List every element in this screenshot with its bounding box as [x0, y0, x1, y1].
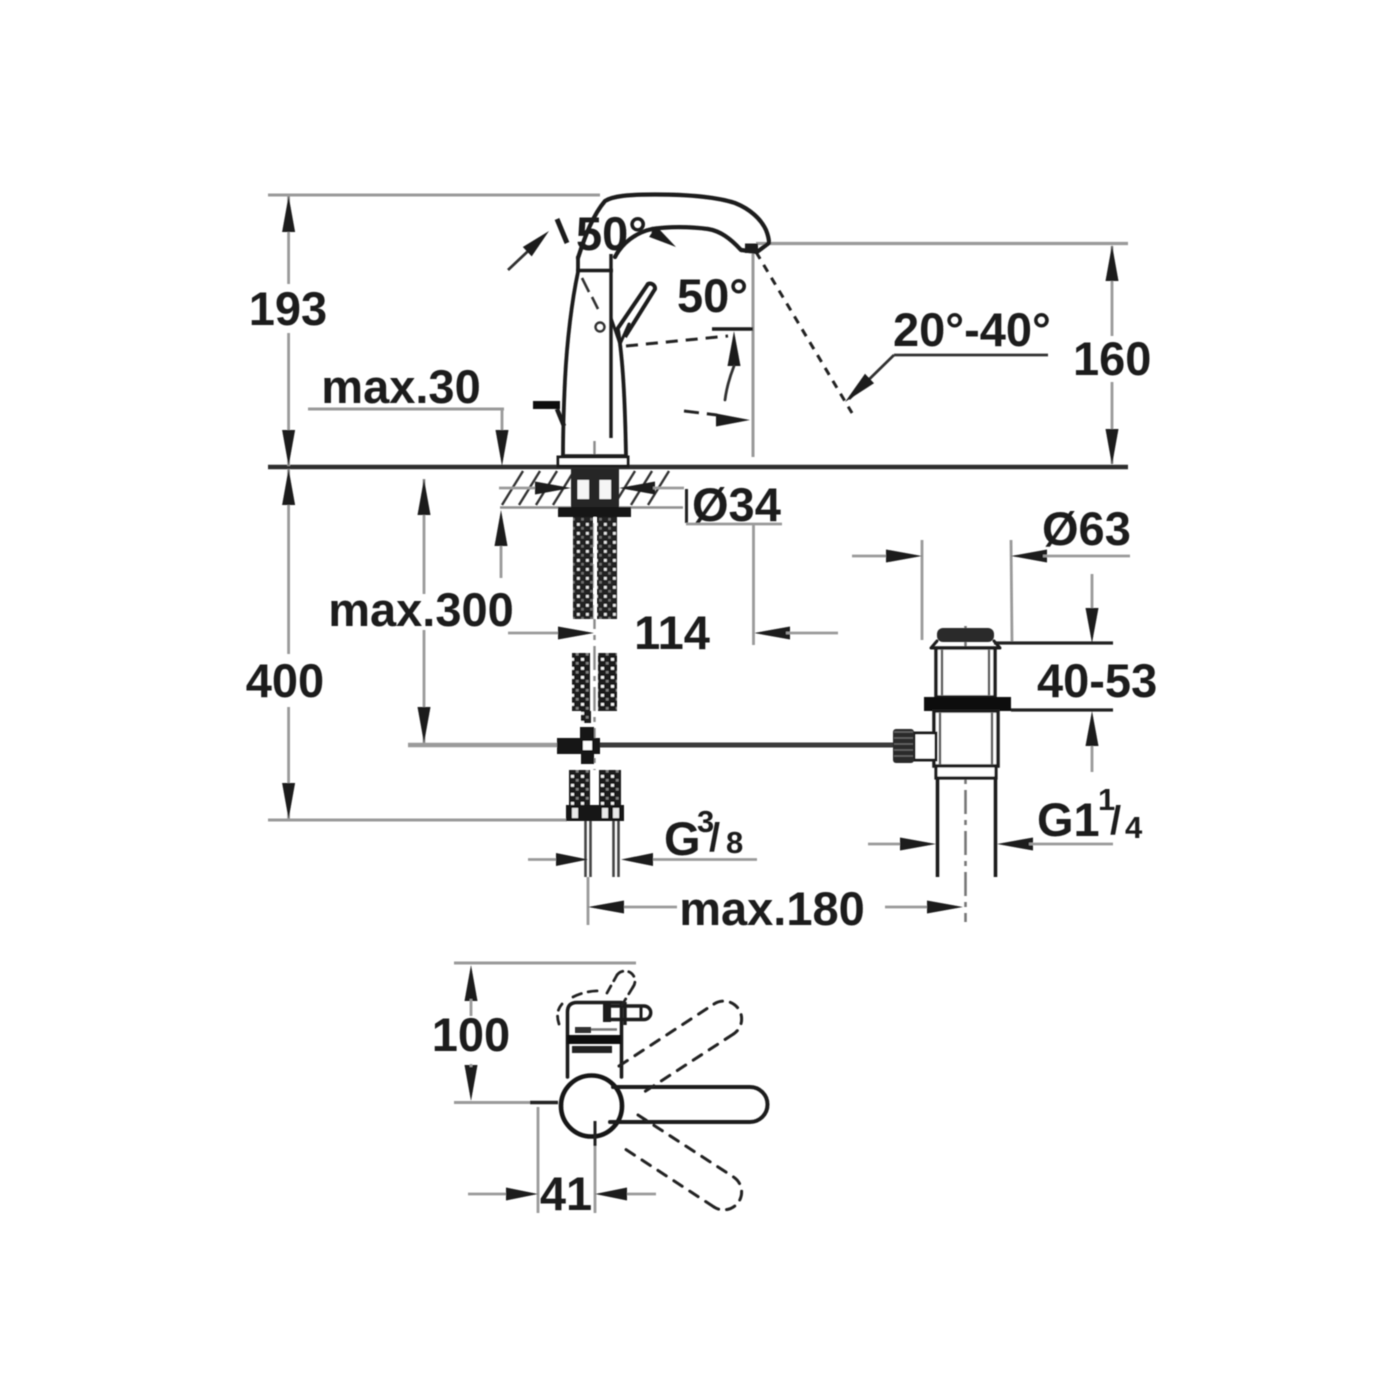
svg-text:400: 400: [246, 654, 324, 707]
svg-text:max.30: max.30: [321, 360, 480, 413]
svg-text:40-53: 40-53: [1037, 654, 1157, 707]
svg-text:100: 100: [432, 1008, 510, 1061]
svg-text:41: 41: [540, 1167, 592, 1220]
svg-text:max.300: max.300: [328, 583, 514, 636]
svg-text:Ø63: Ø63: [1042, 502, 1131, 555]
svg-text:160: 160: [1073, 332, 1151, 385]
svg-text:G: G: [664, 812, 701, 865]
svg-text:/: /: [1110, 799, 1121, 843]
svg-text:193: 193: [249, 282, 327, 335]
svg-text:4: 4: [1125, 810, 1143, 845]
svg-text:8: 8: [726, 825, 743, 860]
svg-text:20°-40°: 20°-40°: [893, 303, 1051, 356]
svg-text:max.180: max.180: [679, 882, 865, 935]
svg-text:G1: G1: [1037, 793, 1100, 846]
svg-text:Ø34: Ø34: [692, 478, 781, 531]
svg-text:114: 114: [634, 606, 710, 659]
svg-text:/: /: [709, 816, 720, 860]
svg-text:50°: 50°: [677, 269, 748, 322]
